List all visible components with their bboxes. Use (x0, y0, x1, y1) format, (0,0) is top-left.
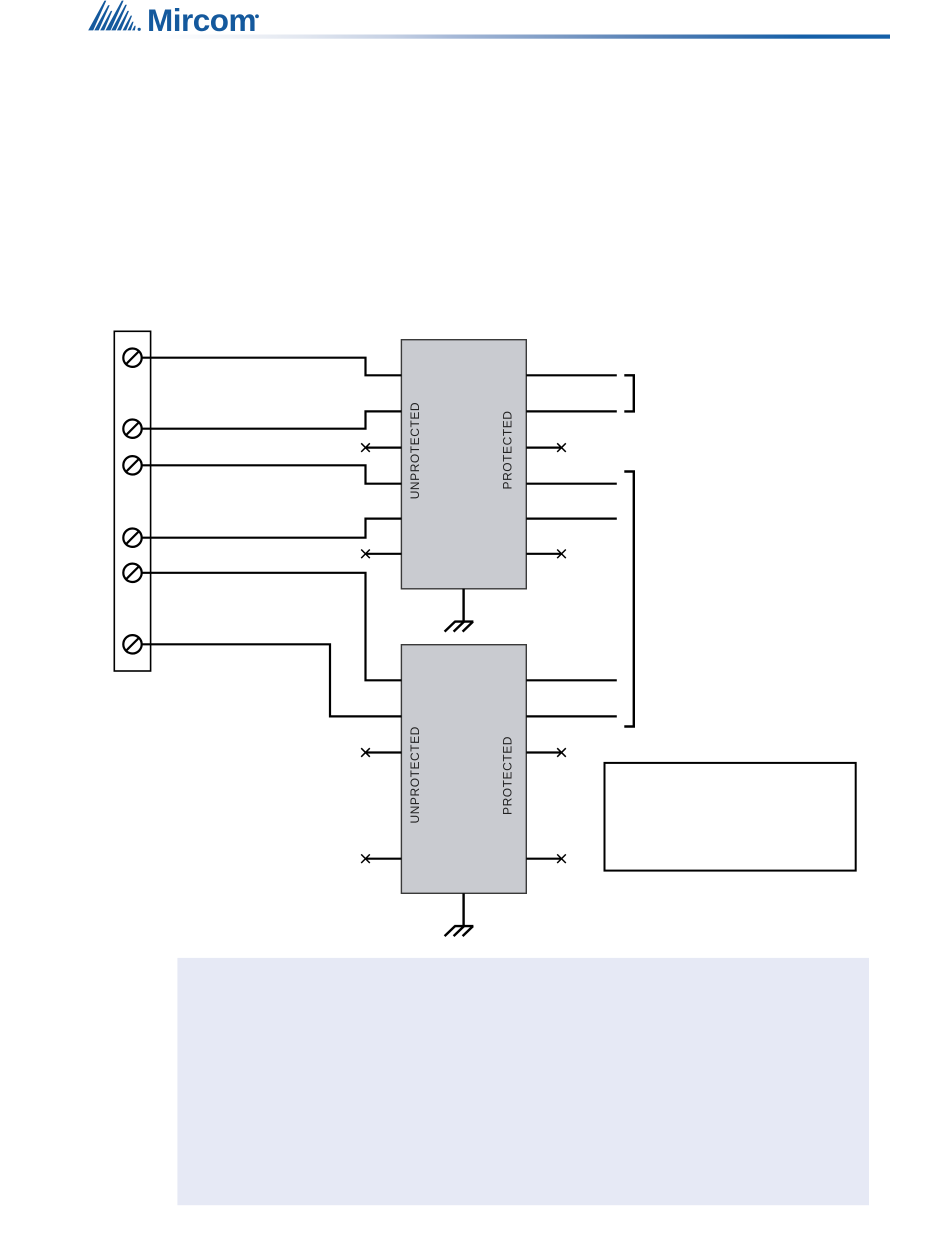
empty note box (605, 763, 856, 871)
terminal screw 2 (123, 420, 141, 438)
wire U1 protected out5 (526, 517, 617, 519)
no-connection X mark U1 out6 (557, 550, 566, 559)
surge protection module U1 (401, 340, 526, 589)
no-connection X mark U2 in4 (361, 854, 370, 863)
no-connection X mark U1 in6 (361, 550, 370, 559)
registered trademark dot (255, 14, 259, 18)
bracket grouping U1 outputs 4-5 and U2 outputs 1-2 (624, 472, 634, 727)
no-connection X mark U2 in3 (361, 748, 370, 757)
terminal screw 6 (123, 635, 141, 653)
terminal screw 5 (123, 564, 141, 582)
wire U1 protected out1 (526, 374, 617, 376)
ground symbol G2 (chassis earth) (445, 893, 474, 936)
U2 unused output stub pin3 with X (526, 751, 561, 753)
terminal screw 1 (123, 349, 141, 367)
no-connection X mark U1 in3 (361, 443, 370, 452)
terminal screw 3 (123, 456, 141, 474)
terminal block TB1 (114, 331, 150, 671)
svg-text:Mircom: Mircom (147, 2, 256, 38)
svg-text:UNPROTECTED: UNPROTECTED (408, 402, 422, 499)
no-connection X mark U2 out4 (557, 854, 566, 863)
U1 unused input stub pin3 (366, 447, 402, 449)
wire terminal5 to U2 pin1 (142, 573, 402, 681)
wire U2 protected out2 (526, 715, 617, 717)
U2 unused input stub pin3 (366, 751, 402, 753)
wire U2 protected out1 (526, 679, 617, 681)
wire terminal6 to U2 pin2 (142, 644, 402, 716)
bracket grouping U1 outputs 1-2 (624, 375, 634, 411)
U2 unused input stub pin4 (366, 858, 402, 860)
no-connection X mark U1 out3 (557, 443, 566, 452)
bottom note panel (177, 958, 869, 1205)
U1 unused input stub pin6 (366, 553, 402, 555)
no-connection X mark U2 out3 (557, 748, 566, 757)
surge protection module U2 (401, 645, 526, 894)
svg-text:UNPROTECTED: UNPROTECTED (408, 726, 422, 823)
Mircom logo hatch icon (88, 1, 141, 31)
wire U1 protected out2 (526, 410, 617, 412)
terminal screw 4 (123, 529, 141, 547)
svg-text:PROTECTED: PROTECTED (500, 411, 514, 490)
wire terminal1 to U1 pin1 (142, 358, 402, 376)
ground symbol G1 (chassis earth) (445, 589, 474, 632)
wire terminal3 to U1 pin4 (142, 465, 402, 483)
wire U1 protected out4 (526, 483, 617, 485)
U2 unused output stub pin4 with X (526, 858, 561, 860)
svg-text:PROTECTED: PROTECTED (500, 736, 514, 815)
U1 unused output stub with X (526, 447, 561, 449)
wire terminal4 to U1 pin5 (142, 519, 402, 538)
U1 unused output stub pin6 with X (526, 553, 561, 555)
wire terminal2 to U1 pin2 (142, 411, 402, 428)
